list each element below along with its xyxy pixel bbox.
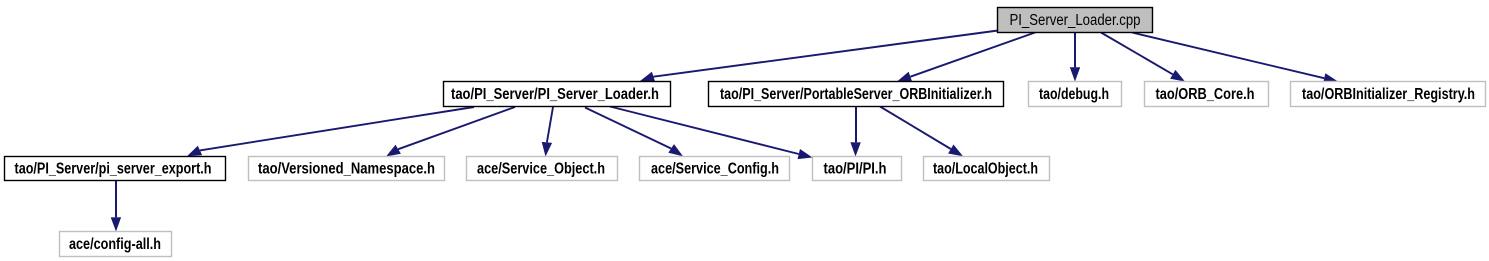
wire PI_Server_Loader.h->pi_server_export.h (200, 107, 474, 150)
wire root->PI_Server_Loader.h (654, 31, 999, 77)
svg-text:tao/PI/PI.h: tao/PI/PI.h (824, 160, 887, 177)
svg-text:tao/debug.h: tao/debug.h (1039, 86, 1109, 103)
svg-text:ace/Service_Config.h: ace/Service_Config.h (651, 160, 779, 177)
svg-text:PI_Server_Loader.cpp: PI_Server_Loader.cpp (1010, 12, 1141, 29)
arrowhead PI_Server_Loader.h->pi_server_export.h (187, 146, 202, 157)
svg-text:tao/PI_Server/PortableServer_O: tao/PI_Server/PortableServer_ORBInitiali… (720, 86, 992, 103)
node tao/PI_Server/PortableServer_ORBInitializer.h (709, 82, 1004, 107)
node tao/debug.h (1029, 82, 1122, 107)
arrowhead PortableServer_ORBInitializer.h->PI.h (850, 142, 860, 156)
node tao/Versioned_Namespace.h (249, 157, 445, 181)
node tao/ORB_Core.h (1145, 82, 1269, 107)
node ace/Service_Object.h (467, 157, 618, 181)
arrowhead root->ORB_Core.h (1170, 70, 1185, 82)
arrowhead pi_server_export.h->config-all.h (111, 217, 121, 231)
arrowhead PI_Server_Loader.h->Versioned_Namespace.h (386, 145, 401, 157)
svg-text:tao/PI_Server/pi_server_export: tao/PI_Server/pi_server_export.h (15, 160, 212, 177)
arrowhead PI_Server_Loader.h->Service_Config.h (668, 144, 683, 156)
wire root->ORBInitializer_Registry.h (1132, 33, 1324, 79)
svg-text:tao/PI_Server/PI_Server_Loader: tao/PI_Server/PI_Server_Loader.h (451, 86, 659, 103)
node tao/LocalObject.h (924, 157, 1050, 181)
wire PI_Server_Loader.h->Service_Object.h (547, 107, 553, 142)
wire PortableServer_ORBInitializer.h->LocalObject.h (880, 107, 951, 150)
svg-text:tao/LocalObject.h: tao/LocalObject.h (933, 160, 1038, 177)
wire root->PortableServer_ORBInitializer.h (910, 33, 1035, 77)
node tao/PI_Server/pi_server_export.h (5, 157, 226, 181)
wire pi_server_export.h->config-all.h (115, 181, 117, 218)
arrowhead PI_Server_Loader.h->Service_Object.h (542, 142, 552, 157)
arrowhead root->PortableServer_ORBInitializer.h (897, 72, 912, 82)
node ace/config-all.h (60, 232, 172, 257)
node ace/Service_Config.h (640, 157, 790, 181)
wire PortableServer_ORBInitializer.h->PI.h (855, 107, 857, 143)
arrowhead PortableServer_ORBInitializer.h->LocalObject.h (948, 145, 963, 157)
wire PI_Server_Loader.h->Service_Config.h (585, 108, 671, 149)
wire PI_Server_Loader.h->Versioned_Namespace.h (398, 107, 515, 149)
node tao/ORBInitializer_Registry.h (1291, 82, 1486, 107)
wire root->debug.h (1074, 33, 1076, 68)
node PI_Server_Loader.cpp (998, 8, 1153, 33)
svg-text:tao/ORBInitializer_Registry.h: tao/ORBInitializer_Registry.h (1302, 86, 1475, 103)
svg-text:tao/Versioned_Namespace.h: tao/Versioned_Namespace.h (258, 160, 435, 177)
svg-text:ace/config-all.h: ace/config-all.h (69, 236, 161, 253)
arrowhead root->debug.h (1070, 67, 1080, 81)
arrowhead root->PI_Server_Loader.h (640, 72, 655, 82)
node tao/PI_Server/PI_Server_Loader.h (444, 82, 671, 107)
svg-text:ace/Service_Object.h: ace/Service_Object.h (477, 160, 605, 177)
wire root->ORB_Core.h (1101, 33, 1173, 75)
wire PI_Server_Loader.h->PI.h (610, 107, 799, 155)
arrowhead PI_Server_Loader.h->PI.h (798, 149, 813, 159)
svg-text:tao/ORB_Core.h: tao/ORB_Core.h (1156, 86, 1255, 103)
arrowhead root->ORBInitializer_Registry.h (1323, 73, 1338, 83)
node tao/PI/PI.h (813, 157, 902, 181)
